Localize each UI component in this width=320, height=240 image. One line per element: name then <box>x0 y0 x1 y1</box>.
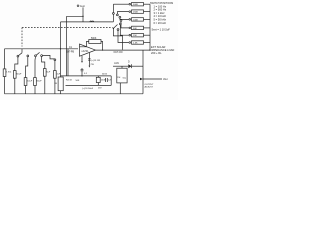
switch S1b pole <box>17 55 19 57</box>
svg-text:10uF: 10uF <box>27 81 33 83</box>
svg-text:25K: 25K <box>133 35 137 37</box>
bus V+ y=75.9 <box>61 75 112 77</box>
wire bus right join <box>110 76 112 86</box>
wire feedback left <box>80 42 89 47</box>
label cext terminal <box>77 5 79 7</box>
svg-text:R4 1K: R4 1K <box>66 80 73 82</box>
diode D1 <box>113 65 128 67</box>
wire op-amp output <box>96 49 151 51</box>
svg-text:50/25: 50/25 <box>102 73 108 75</box>
wire right rail <box>149 4 151 50</box>
svg-text:50K: 50K <box>133 28 137 30</box>
svg-text:Cext: Cext <box>80 5 85 8</box>
svg-text:25V: 25V <box>98 87 102 89</box>
svg-text:1 Ext: 1 Ext <box>6 71 11 74</box>
resistor R5 <box>132 18 144 21</box>
wire main input bus y=48.8 <box>5 48 79 50</box>
svg-text:2W: 2W <box>91 64 95 66</box>
svg-text:5uF: 5uF <box>46 72 50 74</box>
svg-text:ADJUST: ADJUST <box>145 85 154 88</box>
svg-text:SAT-PB: SAT-PB <box>66 51 74 54</box>
switch S1a pole junction <box>113 28 114 29</box>
svg-text:1uF: 1uF <box>57 74 61 76</box>
svg-text:1M: 1M <box>54 83 57 85</box>
svg-text:6 = 20 kHz: 6 = 20 kHz <box>154 21 167 25</box>
bus V- y=85.4 <box>66 84 112 86</box>
mechanical link dashed horizontal <box>22 27 113 29</box>
svg-text:50uF: 50uF <box>16 74 22 76</box>
capacitor C2 column <box>15 57 18 71</box>
resistor R7 <box>132 34 144 37</box>
svg-text:OUT-ON: OUT-ON <box>114 52 123 54</box>
switch contact 3 <box>119 16 121 18</box>
svg-text:0.1: 0.1 <box>84 73 88 75</box>
resistor R6 <box>132 26 144 29</box>
wire v1 <box>60 22 62 77</box>
wire S1c row <box>43 55 55 59</box>
op-amp U1 <box>80 44 96 56</box>
wire left drop <box>4 49 6 69</box>
wire v2 <box>66 16 68 76</box>
wire upper loop <box>67 15 83 17</box>
svg-text:1uF: 1uF <box>108 80 112 82</box>
wire output drop <box>142 50 144 94</box>
capacitor C3 column <box>27 55 29 57</box>
switch contact 2 <box>117 14 119 16</box>
capacitor C6 column <box>54 59 56 61</box>
svg-text:500K: 500K <box>133 4 139 6</box>
capacitor C4 column <box>34 57 37 78</box>
svg-text:1.5K: 1.5K <box>133 43 138 45</box>
svg-text:500K: 500K <box>91 38 97 40</box>
svg-text:(+)15 1W: (+)15 1W <box>91 60 101 62</box>
pot wiper output adjust <box>140 78 143 80</box>
wire S1a pole path <box>113 28 122 49</box>
wire R1 to bottom bus <box>4 77 6 94</box>
svg-text:D: D <box>128 62 130 64</box>
capacitor bypass <box>81 68 83 69</box>
wire op-amp V+ pin <box>88 53 90 66</box>
wire bottom bus <box>5 93 144 95</box>
svg-text:250K: 250K <box>133 12 139 14</box>
svg-text:50K: 50K <box>76 80 80 82</box>
wire S1a feed y=21.9 <box>61 21 114 23</box>
wire v3 drop <box>67 49 69 76</box>
mechanical link dashed vertical <box>21 28 23 47</box>
svg-text:LM1: LM1 <box>114 63 119 65</box>
svg-text:50uF: 50uF <box>37 81 43 83</box>
wire feedback right <box>101 42 103 51</box>
pot R10 tall box <box>58 77 63 91</box>
switch contact 1 <box>112 4 114 12</box>
fuse S1 mark <box>90 21 94 22</box>
svg-text:200 + RL: 200 + RL <box>151 51 162 55</box>
switch S1c pole <box>35 55 37 57</box>
svg-text:uA741: uA741 <box>82 50 90 53</box>
svg-text:100K: 100K <box>133 19 139 21</box>
svg-text:1M: 1M <box>117 77 120 79</box>
capacitor C5 column <box>41 55 43 57</box>
switch contact 5 <box>119 23 121 25</box>
resistor R8 <box>132 41 144 44</box>
relay K1 box <box>121 66 123 68</box>
capacitor C7 <box>105 78 107 82</box>
svg-text:(+)C6 50uF: (+)C6 50uF <box>82 88 94 90</box>
resistor R1 <box>3 69 6 77</box>
svg-text:Vout: Vout <box>163 78 168 81</box>
switch contact 4 <box>120 20 122 22</box>
resistor R3 <box>132 3 144 6</box>
wire S1b pole tap <box>21 49 23 53</box>
switch contact 6 <box>117 29 119 31</box>
resistor R4 <box>132 10 144 13</box>
text labels <box>6 2 174 90</box>
resistor R11 between buses <box>96 77 100 82</box>
svg-text:Sext = 1 10.5uF: Sext = 1 10.5uF <box>152 28 171 32</box>
feedback resistor R2 <box>89 40 101 44</box>
wire op-amp V- pin <box>81 56 83 61</box>
svg-text:250K: 250K <box>101 79 106 81</box>
terminal Cext <box>82 7 84 22</box>
